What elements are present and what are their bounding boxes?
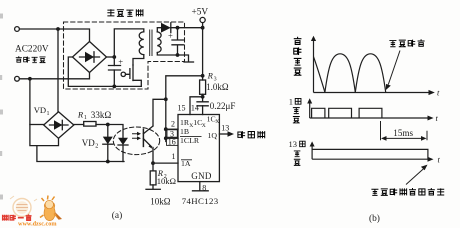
svg-text:14: 14 [191,103,199,112]
wire pin13 output [219,133,227,135]
annotation arrow 瞬断发生 [388,51,400,85]
wire AC top down to VD1 bridge [57,29,59,112]
svg-text:R: R [207,71,214,81]
VD1 inner diode [50,124,69,126]
label 瞬断检测信号输出 [371,189,378,195]
opto light arrows [133,134,139,139]
svg-text:R: R [77,110,84,120]
svg-text:1: 1 [172,152,176,161]
left edge marks [0,14,3,200]
node R1 out [106,123,110,127]
bridge rectifier (top) diamond [73,42,107,73]
wire bridge left corner to bus [68,57,141,86]
graph3 y-axis [311,145,313,160]
graph3 x-axis [312,158,428,160]
label pin16 boxed [167,138,179,146]
graph2 x-axis [310,117,428,119]
15ms right tick [426,131,428,141]
svg-text:15ms: 15ms [393,128,413,138]
ground R2 [146,188,160,190]
svg-text:+: + [168,30,173,40]
opto LED anode wire [108,125,123,138]
op-amp U1 74HC123 box [178,115,219,182]
node rail diode junction [201,26,205,30]
wire detect return [37,146,124,162]
resistor R3 [200,80,206,94]
graph3 long pulse [312,149,428,159]
wire C3 to pin14 [202,106,204,115]
resistor R1 [84,122,96,127]
wire rail to pins 2/3/16 branch [166,76,203,100]
wire GND pin 8 [199,182,201,191]
opto LED [118,138,128,145]
wire to VD1 left corner [30,124,44,126]
svg-text:1: 1 [47,111,50,117]
opto phototransistor base bar [142,129,144,146]
wire pin2 stub [166,128,178,130]
label 接微机 [238,131,245,138]
graph2 pulses [312,108,382,118]
svg-text:1: 1 [289,97,293,107]
svg-text:1Q: 1Q [208,131,218,140]
transistor Q1 channel [132,65,134,81]
wire AC top [19,29,89,42]
svg-text:1.0kΩ: 1.0kΩ [206,82,229,92]
svg-text:10kΩ: 10kΩ [157,176,176,186]
node bridge DC+ [112,55,116,59]
wire bridge right corner to DC rail [107,56,115,58]
bridge top diode [80,56,100,58]
svg-text:GND: GND [191,171,212,181]
svg-text:+5V: +5V [192,8,209,18]
bridge rectifier VD1 (detector) diamond [44,112,74,139]
label 开关电源 [107,9,114,16]
ground secondary [184,61,194,63]
graph1 y-axis [313,39,315,93]
svg-text:1A: 1A [181,159,191,168]
node pin3 [164,136,168,140]
wire AC bottom [19,73,89,79]
svg-text:8: 8 [202,183,206,192]
svg-text:1B: 1B [180,127,189,136]
wire DC+ up and to transformer [114,29,144,57]
svg-text:+: + [118,57,123,67]
svg-text:2: 2 [95,143,98,150]
wire pin1 [153,162,178,164]
watermark text 维库一下 [3,214,32,220]
svg-text:13: 13 [221,123,229,132]
svg-text:33kΩ: 33kΩ [91,110,112,120]
wire Q1 source to bus [133,80,141,86]
svg-text:www.dzsc.com: www.dzsc.com [18,221,57,228]
svg-text:16: 16 [168,138,176,147]
svg-text:74HC123: 74HC123 [182,196,219,206]
wire R3 bottom [202,94,204,102]
label 输入电压 vertical [294,37,302,45]
label pin3 boxed [167,130,177,137]
wire AC bottom down to VD1 bridge [30,79,59,146]
zener VD2 [107,125,109,137]
wire R1 to node [96,124,108,126]
svg-text:1: 1 [84,115,87,121]
opto emitter [143,139,151,147]
node R3 bottom [201,95,205,99]
AC input terminal bottom [15,76,20,81]
node rail to IC supply branch [201,74,205,78]
watermark mascot [44,202,55,221]
svg-text:1CLR: 1CLR [180,136,200,145]
wire +5V rail down [202,23,204,80]
wire emitter down [152,148,154,164]
svg-text:2: 2 [171,120,175,129]
svg-text:15: 15 [178,103,186,112]
graph2 y-axis [309,102,311,119]
optocoupler U2 dashed outline [113,127,159,155]
node diode cathode / C2 [176,26,180,30]
transformer T1 secondary [157,32,161,53]
node C2 bottom [176,53,180,57]
wire pin3 stub [166,137,178,139]
svg-text:AC220V: AC220V [15,45,49,55]
svg-text:0.22μF: 0.22μF [210,101,236,111]
svg-text:10kΩ: 10kΩ [150,196,171,206]
node A top AC junction [56,27,60,31]
capacitor C1 electrolytic [109,66,121,71]
transformer T1 primary [139,32,144,55]
svg-text:X: X [202,123,206,129]
opto collector [143,126,153,134]
svg-text:13: 13 [289,139,298,149]
node VD2 bottom [106,160,110,164]
wire Q1 drain from transformer primary [133,55,144,65]
annotation arrow 瞬断检测信号输出 [406,169,424,185]
15ms dimension line [385,137,423,139]
transformer T1 core [150,30,152,56]
ground IC [193,190,209,192]
wire branch to opto collector [153,99,166,126]
wire secondary common to ground tick [178,55,189,62]
graph1 x-axis [314,92,430,94]
node B bottom AC junction [28,77,32,81]
15ms left tick [380,121,382,140]
capacitor C2 electrolytic output [172,28,183,55]
AC input terminal top [15,27,20,32]
resistor R2 [150,171,156,185]
diode VD output rectifier [161,23,171,33]
node emitter/R2/pin1 [151,161,155,165]
node branch split [164,97,168,101]
watermark logo circle [13,199,31,217]
wire diode to +5V rail [171,27,203,29]
node bus under C1 [112,85,116,89]
svg-text:X: X [215,119,219,125]
svg-text:(a): (a) [112,210,122,221]
wire VD1 to R1 [74,124,84,126]
svg-text:VD: VD [34,105,46,115]
svg-text:(b): (b) [369,213,380,224]
wire secondary bottom [157,53,177,56]
label 输入电压 (fake glyphs) [16,56,22,62]
node pin2 [164,127,168,131]
dashed box switching supply [64,22,185,89]
svg-text:VD: VD [82,138,95,148]
graph1 rectified humps [314,57,325,92]
wire branch down pins [165,99,167,141]
wire secondary top to diode [157,28,161,32]
transistor Q1 MOSFET gate terminal [121,72,125,76]
+5V terminal [200,17,205,22]
capacitor C3 0.22uF [197,102,208,106]
wire node to pin15 [190,97,203,115]
label 瞬断发生 [389,41,396,47]
